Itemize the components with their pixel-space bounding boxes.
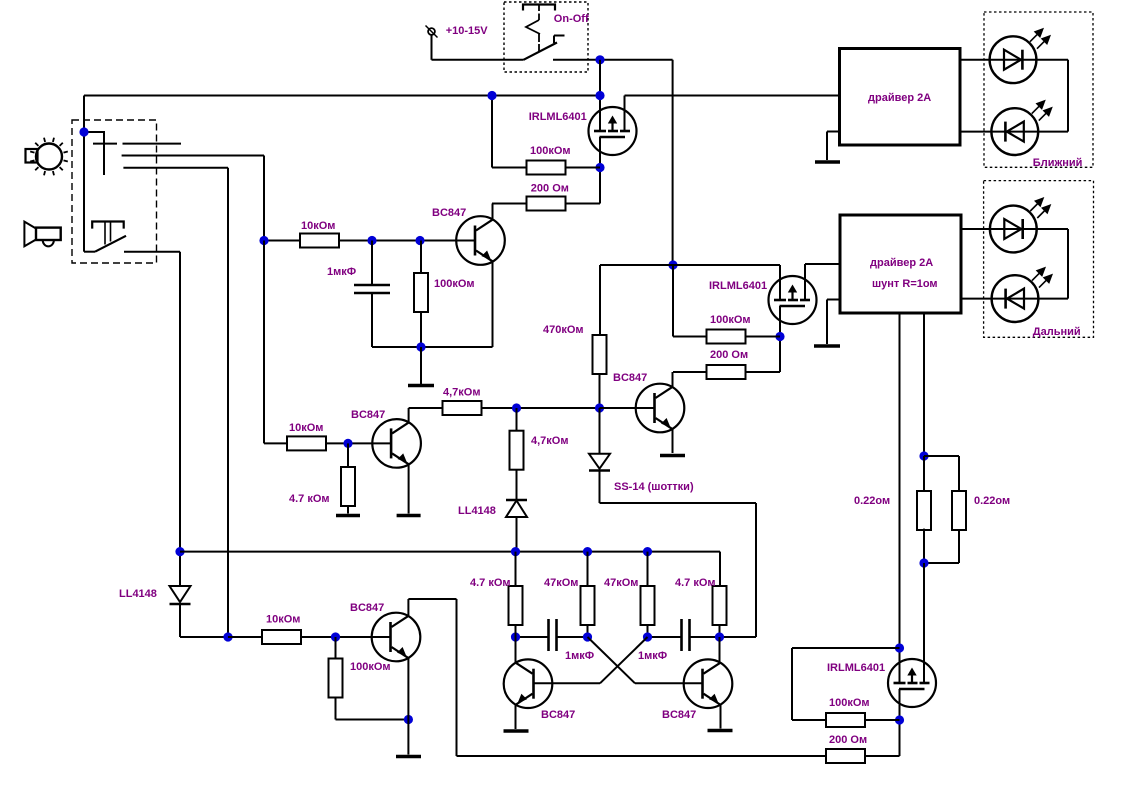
label LL4148 D2 [119,588,157,600]
label 4,7кОм vertical [531,435,569,447]
horn button hatch lines [105,222,111,245]
ground under Q6 [708,729,733,733]
driver block 2 (драйвер 2А шунт) [840,215,961,313]
resistor R 10kOm (Q4 base) [262,630,301,644]
npn Q6 BC847 [684,659,733,708]
wire base node to D3 [599,408,601,453]
label 100кОм U1 [530,145,571,157]
label 470кОм [543,324,584,336]
far-beam dotted box [984,181,1094,338]
wire D1 to bus [516,517,518,552]
wire MOSFET1 gate to driver1 [625,96,840,132]
label Дальний [1033,326,1081,338]
label SS-14 (шоттки) [614,481,694,493]
node cap junction [367,236,376,245]
label BC847 Q3 [613,372,647,384]
svg-text:драйвер 2A: драйвер 2A [870,257,933,269]
svg-text:LL4148: LL4148 [458,505,496,517]
node bus x516 [511,547,520,556]
near-beam dotted box [984,12,1093,167]
label 100кОм U3 [829,697,870,709]
capacitor C1 1mkF [354,285,390,293]
wire +rail from lamp-switch node to MOSFET source [84,95,600,97]
supply terminal +10-15V [426,26,438,38]
svg-text:10кОм: 10кОм [301,220,335,232]
svg-text:Ближний: Ближний [1033,157,1083,169]
npn Q3 BC847 [636,384,685,433]
ground under Q3 [660,454,685,458]
driver block 1 (драйвер 2А) [840,49,961,146]
wire lamp switch pole feed [84,131,104,175]
svg-text:SS-14 (шоттки): SS-14 (шоттки) [614,481,694,493]
label 0.22ом right [974,495,1010,507]
wire cross coupling C to Q5 base [600,637,648,683]
node Q2 base junction [343,439,352,448]
svg-text:0.22ом: 0.22ом [854,495,890,507]
wire D2 to horn column [180,604,228,637]
node switch output [595,55,604,64]
svg-text:47кОм: 47кОм [544,577,578,589]
wire Q5 collector [515,625,517,663]
svg-text:IRLML6401: IRLML6401 [709,280,767,292]
wire 470k to base node [599,374,601,408]
ground under Q2 [397,514,421,518]
wire 100k Q4 column [336,637,409,720]
LED D near-1 [990,28,1051,83]
wire Q3 collector [672,372,674,388]
label 1мкФ C1 [327,266,356,278]
wire bus drops [516,552,721,586]
wire cap column [371,241,373,348]
LED D near-2 [991,100,1052,155]
wire node row segment B [557,636,588,638]
svg-text:200 Ом: 200 Ом [829,734,867,746]
On-Off switch contact hook [554,36,565,44]
node feed junction x673 [668,260,677,269]
npn Q5 BC847 (mirrored) [504,659,553,708]
wire 200Om row U2 [673,371,707,373]
wire Q6 emitter [720,705,722,729]
wire MOSFET1 source [599,60,601,131]
label On-Off [554,13,589,25]
wire to Q4 base resistor [228,636,262,638]
wire Q6 base [635,682,703,684]
label 4.7 кОм Q2 [289,493,330,505]
wire node row segment A [516,636,549,638]
wire MOSFET3 gate [923,563,925,683]
label 100кОм U2 [710,314,751,326]
On-Off dotted box [504,2,588,72]
wire horn button feed [84,132,95,252]
svg-text:1мкФ: 1мкФ [638,650,667,662]
wire Q1 collector [492,204,494,221]
label драйвер 2A (1) [868,92,931,104]
LED D far-1 [990,197,1051,252]
node bus left junction [175,547,184,556]
label BC847 Q2 [351,409,385,421]
resistor R 4.7kOm (Q2 base-gnd) [341,467,355,506]
wire driver2 pin2 to shunt [923,313,925,456]
resistor R 100kOm (U1 pull) [527,161,566,175]
label 200 Ом U2 [710,349,748,361]
p-mosfet U1 IRLML6401 [589,107,637,155]
wire 100k U2 to drain [746,336,781,338]
node dashed-box junction [79,127,88,136]
label 4.7 кОм mv-left [470,577,511,589]
label 47кОм mv-right [604,577,638,589]
svg-text:100кОм: 100кОм [530,145,571,157]
resistor R 200 Om (U2 gate drive) [707,365,746,379]
wire Q4 emitter [407,658,409,755]
diode D1 LL4148 [506,500,527,517]
resistor R 200 Om (U3 gate drive) [826,749,865,763]
wire driver2 out bottom [961,298,1068,300]
wire node row segment D [690,636,720,638]
p-mosfet U3 IRLML6401 [888,659,936,707]
wire 200Om U3 to drain [865,755,900,757]
wire MOSFET3 drain [899,689,901,756]
wire 470k column [599,265,601,335]
wire Q5 emitter [515,705,517,730]
label 1мкФ C2 [565,650,594,662]
node shunt top [919,451,928,460]
ground under Q4 [396,755,421,759]
svg-text:1мкФ: 1мкФ [565,650,594,662]
node base junction x264 [259,236,268,245]
wire LED loop right (near) [1067,60,1069,132]
LED D far-2 [992,267,1053,322]
label 0.22ом left [854,495,890,507]
wire driver1 out bottom [960,131,1068,133]
svg-text:BC847: BC847 [351,409,385,421]
svg-text:BC847: BC847 [350,602,384,614]
svg-text:100кОм: 100кОм [710,314,751,326]
wire multivibrator bus [180,551,720,553]
capacitor C3 1mkF [682,619,690,651]
label шунт R=1ом [872,278,938,290]
wire Q3 emitter [672,429,674,453]
wire emitter bottom link [372,346,493,348]
node 100k junction [415,236,424,245]
svg-text:100кОм: 100кОм [434,278,475,290]
wire 4,7k to node [482,407,600,409]
label IRLML6401 U1 [529,111,587,123]
svg-text:47кОм: 47кОм [604,577,638,589]
node rail junction x492 [487,91,496,100]
headlight lamp icon [26,138,68,176]
wire to diode D1 [516,408,518,500]
label BC847 Q5 [541,709,575,721]
resistor R 0.22om left [917,491,931,530]
label 47кОм mv-left [544,577,578,589]
wire Q2 emitter [408,464,410,514]
label 100кОм Q1 [434,278,475,290]
svg-text:BC847: BC847 [613,372,647,384]
wire Q1 emitter [492,262,494,348]
svg-text:4,7кОм: 4,7кОм [443,387,481,399]
wire 100k leg from feed [673,265,707,337]
svg-text:+10-15V: +10-15V [446,25,489,37]
wire 100k to drain [566,167,601,169]
resistor R 200 Om (U1 gate drive) [527,197,566,211]
lamp switch contact 2 wire to low-beam stage [122,156,264,241]
node x600 y408 [595,403,604,412]
diode D3 SS-14 [589,454,610,471]
svg-text:On-Off: On-Off [554,13,589,25]
ground under Q1 stage [408,347,434,386]
label 10кОм Q1 [301,220,335,232]
svg-text:BC847: BC847 [662,709,696,721]
wire horizontal y265 [600,264,780,266]
label 100кОм Q4 [350,661,391,673]
wire 100k column [420,241,422,348]
wire Q2 collector [409,408,443,423]
svg-text:4,7кОм: 4,7кОм [531,435,569,447]
wire shunt right loop bottom [924,529,959,563]
resistor R 100kOm (Q1 base-gnd) [414,273,428,312]
label 200 Ом U3 [829,734,867,746]
node bus x588 [583,547,592,556]
resistor R 0.22om right [952,491,966,530]
node source junction U3 [895,643,904,652]
resistor R 470kOm [593,335,607,374]
label 4,7кОм horizontal [443,387,481,399]
wire MOSFET2 source [779,265,781,300]
svg-text:драйвер 2A: драйвер 2A [868,92,931,104]
label Ближний [1033,157,1083,169]
svg-text:LL4148: LL4148 [119,588,157,600]
wire shunt left column [923,456,925,563]
npn Q2 BC847 [372,419,421,468]
driver1 ground stub [827,132,839,161]
svg-text:0.22ом: 0.22ом [974,495,1010,507]
svg-text:200 Ом: 200 Ом [710,349,748,361]
node Q4 base junction [331,632,340,641]
ground under driver1 [815,160,840,164]
driver2 ground stub [827,300,840,345]
svg-text:BC847: BC847 [432,207,466,219]
diode D2 LL4148 [170,586,191,604]
node mv B [583,632,592,641]
wire 4.7k column [347,443,349,513]
resistor R 10kOm (Q2 base) [287,436,326,450]
wire x264 down to Q2 [264,241,287,444]
label BC847 Q4 [350,602,384,614]
wire Q5 base [534,682,601,684]
wire driver2 out top [961,228,1068,230]
node mv D [715,632,724,641]
wire 200Om U2 to drain [746,371,781,373]
svg-text:BC847: BC847 [541,709,575,721]
svg-text:4.7 кОм: 4.7 кОм [289,493,330,505]
wire base row y241 right [339,240,474,242]
label BC847 Q1 [432,207,466,219]
node horn-line junction [223,632,232,641]
node emitter junction [416,342,425,351]
wire Q4 base [301,636,390,638]
label 10кОм Q2 [289,422,323,434]
label LL4148 D1 [458,505,496,517]
resistor R 4,7kOm (to multivib) [510,431,524,470]
svg-text:4.7 кОм: 4.7 кОм [470,577,511,589]
wire switch output to corner [553,60,673,265]
lamp switch contact 1 (off) [123,143,182,145]
horn button lever [95,236,126,252]
label драйвер 2A (2) [870,257,933,269]
wire Q3 base [600,407,655,409]
svg-text:10кОм: 10кОм [289,422,323,434]
wire driver2 pin1 to MOSFET3 [899,313,901,683]
wire 100k loop U3 [792,648,900,720]
wire D3 to multivib right node [600,471,757,638]
resistor R 10kOm (Q1 base) [300,234,339,248]
wire Q4 collector loop [408,599,826,756]
svg-text:470кОм: 470кОм [543,324,584,336]
control stalk dashed box [72,120,157,263]
label IRLML6401 U2 [709,280,767,292]
resistor R 100kOm (U3 pull) [826,713,865,727]
npn Q1 BC847 [456,216,505,265]
svg-text:100кОм: 100кОм [829,697,870,709]
On-Off switch top bracket [523,5,555,11]
resistor R 4,7kOm (horizontal) [443,401,482,415]
label 10кОм Q4 [266,614,300,626]
On-Off actuator dashes and spring [526,5,540,53]
p-mosfet U2 IRLML6401 [769,276,817,324]
node x516 y408 [512,403,521,412]
svg-text:Дальний: Дальний [1033,326,1081,338]
horn speaker icon [24,222,60,247]
lamp switch contact 3 wire to high-beam stage [123,168,228,637]
label 1мкФ C3 [638,650,667,662]
resistor R 47kOm (mv right) [641,586,655,625]
node Q4 emitter junction [404,715,413,724]
node drain junction U3 [895,715,904,724]
wire 100k leg from rail [492,96,527,168]
wire MOSFET2 drain [779,306,781,372]
npn Q4 BC847 [372,613,421,662]
wire horn output [124,252,180,586]
wire node A vertical [83,96,85,133]
On-Off switch lever [524,43,558,60]
resistor R 100kOm (Q4 base-gnd) [329,659,343,698]
svg-text:100кОм: 100кОм [350,661,391,673]
lamp switch crossbar [93,143,117,145]
horn button bracket [92,222,124,229]
node shunt bottom [919,558,928,567]
wire Q2 base [326,442,390,444]
node drain junction U1 [595,163,604,172]
ground under driver2 [814,344,840,348]
svg-text:шунт R=1ом: шунт R=1ом [872,278,938,290]
resistor R 4.7kOm (mv right) [713,586,727,625]
wire 200Om row U1 [492,203,527,205]
wire cross coupling B to Q6 base [588,637,636,683]
wire shunt right loop [924,456,959,491]
wire Q6 collector [719,637,721,663]
resistor R 47kOm (mv left) [581,586,595,625]
label 4.7 кОм mv-right [675,577,716,589]
wire base row y241 left [264,240,300,242]
wire LED loop right (far) [1067,229,1069,299]
wire terminal to switch [432,35,524,60]
label BC847 Q6 [662,709,696,721]
wire 200Om to drain [566,203,601,205]
svg-text:200 Ом: 200 Ом [531,183,569,195]
label +10-15V [446,25,489,37]
svg-text:IRLML6401: IRLML6401 [827,662,885,674]
label IRLML6401 U3 [827,662,885,674]
wire 100k U3 to drain [865,719,900,721]
svg-text:1мкФ: 1мкФ [327,266,356,278]
capacitor C2 1mkF [549,619,557,651]
wire resistor bottoms to node row [588,625,720,637]
ground under 4.7k [336,514,360,518]
svg-text:4.7 кОм: 4.7 кОм [675,577,716,589]
svg-text:10кОм: 10кОм [266,614,300,626]
resistor R 4.7kOm (mv left) [509,586,523,625]
node mv A [511,632,520,641]
wire MOSFET1 drain [599,137,601,204]
resistor R 100kOm (U2 pull) [707,330,746,344]
node bus x648 [643,547,652,556]
wire MOSFET2 gate to driver2 [805,264,840,300]
label 200 Ом U1 [531,183,569,195]
wire driver1 out top [960,59,1068,61]
node drain junction U2 [775,332,784,341]
node rail-source junction [595,91,604,100]
node mv C [643,632,652,641]
wire node row segment C [648,636,682,638]
ground under Q5 [504,729,529,733]
svg-text:IRLML6401: IRLML6401 [529,111,587,123]
